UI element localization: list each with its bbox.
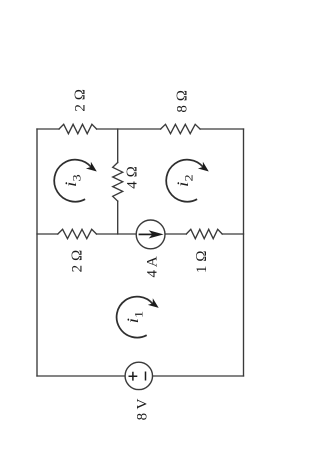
svg-text:4 A: 4 A [145,256,161,277]
svg-text:8 V: 8 V [135,398,151,420]
svg-text:8 Ω: 8 Ω [174,90,190,113]
svg-text:2 Ω: 2 Ω [69,250,85,273]
svg-text:4 Ω: 4 Ω [125,166,141,189]
svg-text:2 Ω: 2 Ω [73,89,89,112]
svg-text:1 Ω: 1 Ω [194,250,210,273]
